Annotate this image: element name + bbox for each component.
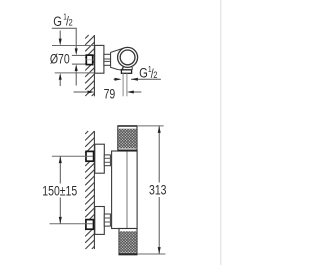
dim 313 top extension line	[137, 125, 164, 127]
G 1/2 outlet left arrow	[114, 78, 120, 80]
outlet collar	[121, 70, 131, 74]
dim 313 text	[149, 182, 167, 198]
top union nut in wall (front view)	[86, 151, 94, 161]
wall face line (top view)	[93, 35, 95, 96]
wall hatch (front view)	[85, 131, 94, 249]
bottom hex nut	[104, 214, 110, 226]
wall hatch (top view)	[85, 35, 94, 96]
bottom union nut in wall (front view)	[86, 220, 94, 230]
G 1/2 outlet leader line	[131, 78, 161, 80]
escutcheon flange (top view)	[95, 45, 104, 73]
dim 150+-15 line upper segment + up arrow	[59, 156, 61, 183]
G 1/2 bottom arrow (up)	[75, 69, 77, 86]
cone body (top view)	[111, 48, 127, 70]
svg-text:Ø70: Ø70	[50, 51, 70, 67]
dim 313 line lower segment + down arrow	[158, 197, 160, 254]
supply pipe behind wall (top view)	[72, 54, 86, 56]
head outer ring	[118, 47, 138, 67]
G 1/2 top underline	[52, 27, 77, 29]
body trim	[112, 151, 138, 229]
dim 313 line upper segment + up arrow	[158, 126, 160, 183]
dia 70 bottom extension line	[55, 72, 104, 74]
outlet pipe	[122, 73, 124, 96]
bottom handle	[119, 229, 137, 255]
union nut in wall (top view)	[86, 55, 92, 65]
dia 70 top extension line	[52, 45, 104, 47]
svg-text:150±15: 150±15	[42, 183, 77, 199]
dim 79 left segment	[74, 91, 91, 93]
dia 70 bottom arrow (up)	[59, 78, 61, 87]
top handle	[118, 126, 137, 151]
dim 79 text	[104, 86, 116, 102]
collar nut (top view)	[104, 54, 111, 65]
body panel line	[126, 151, 128, 229]
dia 70 top arrow (down)	[59, 31, 61, 41]
page column separator line	[220, 0, 222, 265]
head inner circle	[120, 50, 135, 65]
dia 70 text	[50, 51, 70, 67]
outlet neck	[122, 67, 124, 70]
dim 150+-15 top extension line	[52, 155, 93, 157]
G 1/2 leader down line + arrow	[75, 28, 77, 50]
wall face line (front view)	[93, 131, 95, 249]
dim 150+-15 text	[42, 183, 77, 199]
svg-text:G1/2: G1/2	[53, 12, 73, 30]
svg-text:79: 79	[104, 86, 116, 102]
bottom escutcheon	[95, 207, 105, 235]
label G 1/2 (top)	[53, 12, 73, 30]
top hex nut	[104, 155, 110, 166]
dim 79 right segment	[131, 91, 141, 93]
top escutcheon	[95, 144, 105, 173]
label G 1/2 (outlet)	[139, 64, 158, 81]
dim 150+-15 bottom extension line	[50, 223, 94, 225]
svg-text:313: 313	[149, 182, 167, 198]
dim 150+-15 line lower segment + down arrow	[59, 198, 61, 224]
dim 313 bottom extension line	[137, 253, 165, 255]
